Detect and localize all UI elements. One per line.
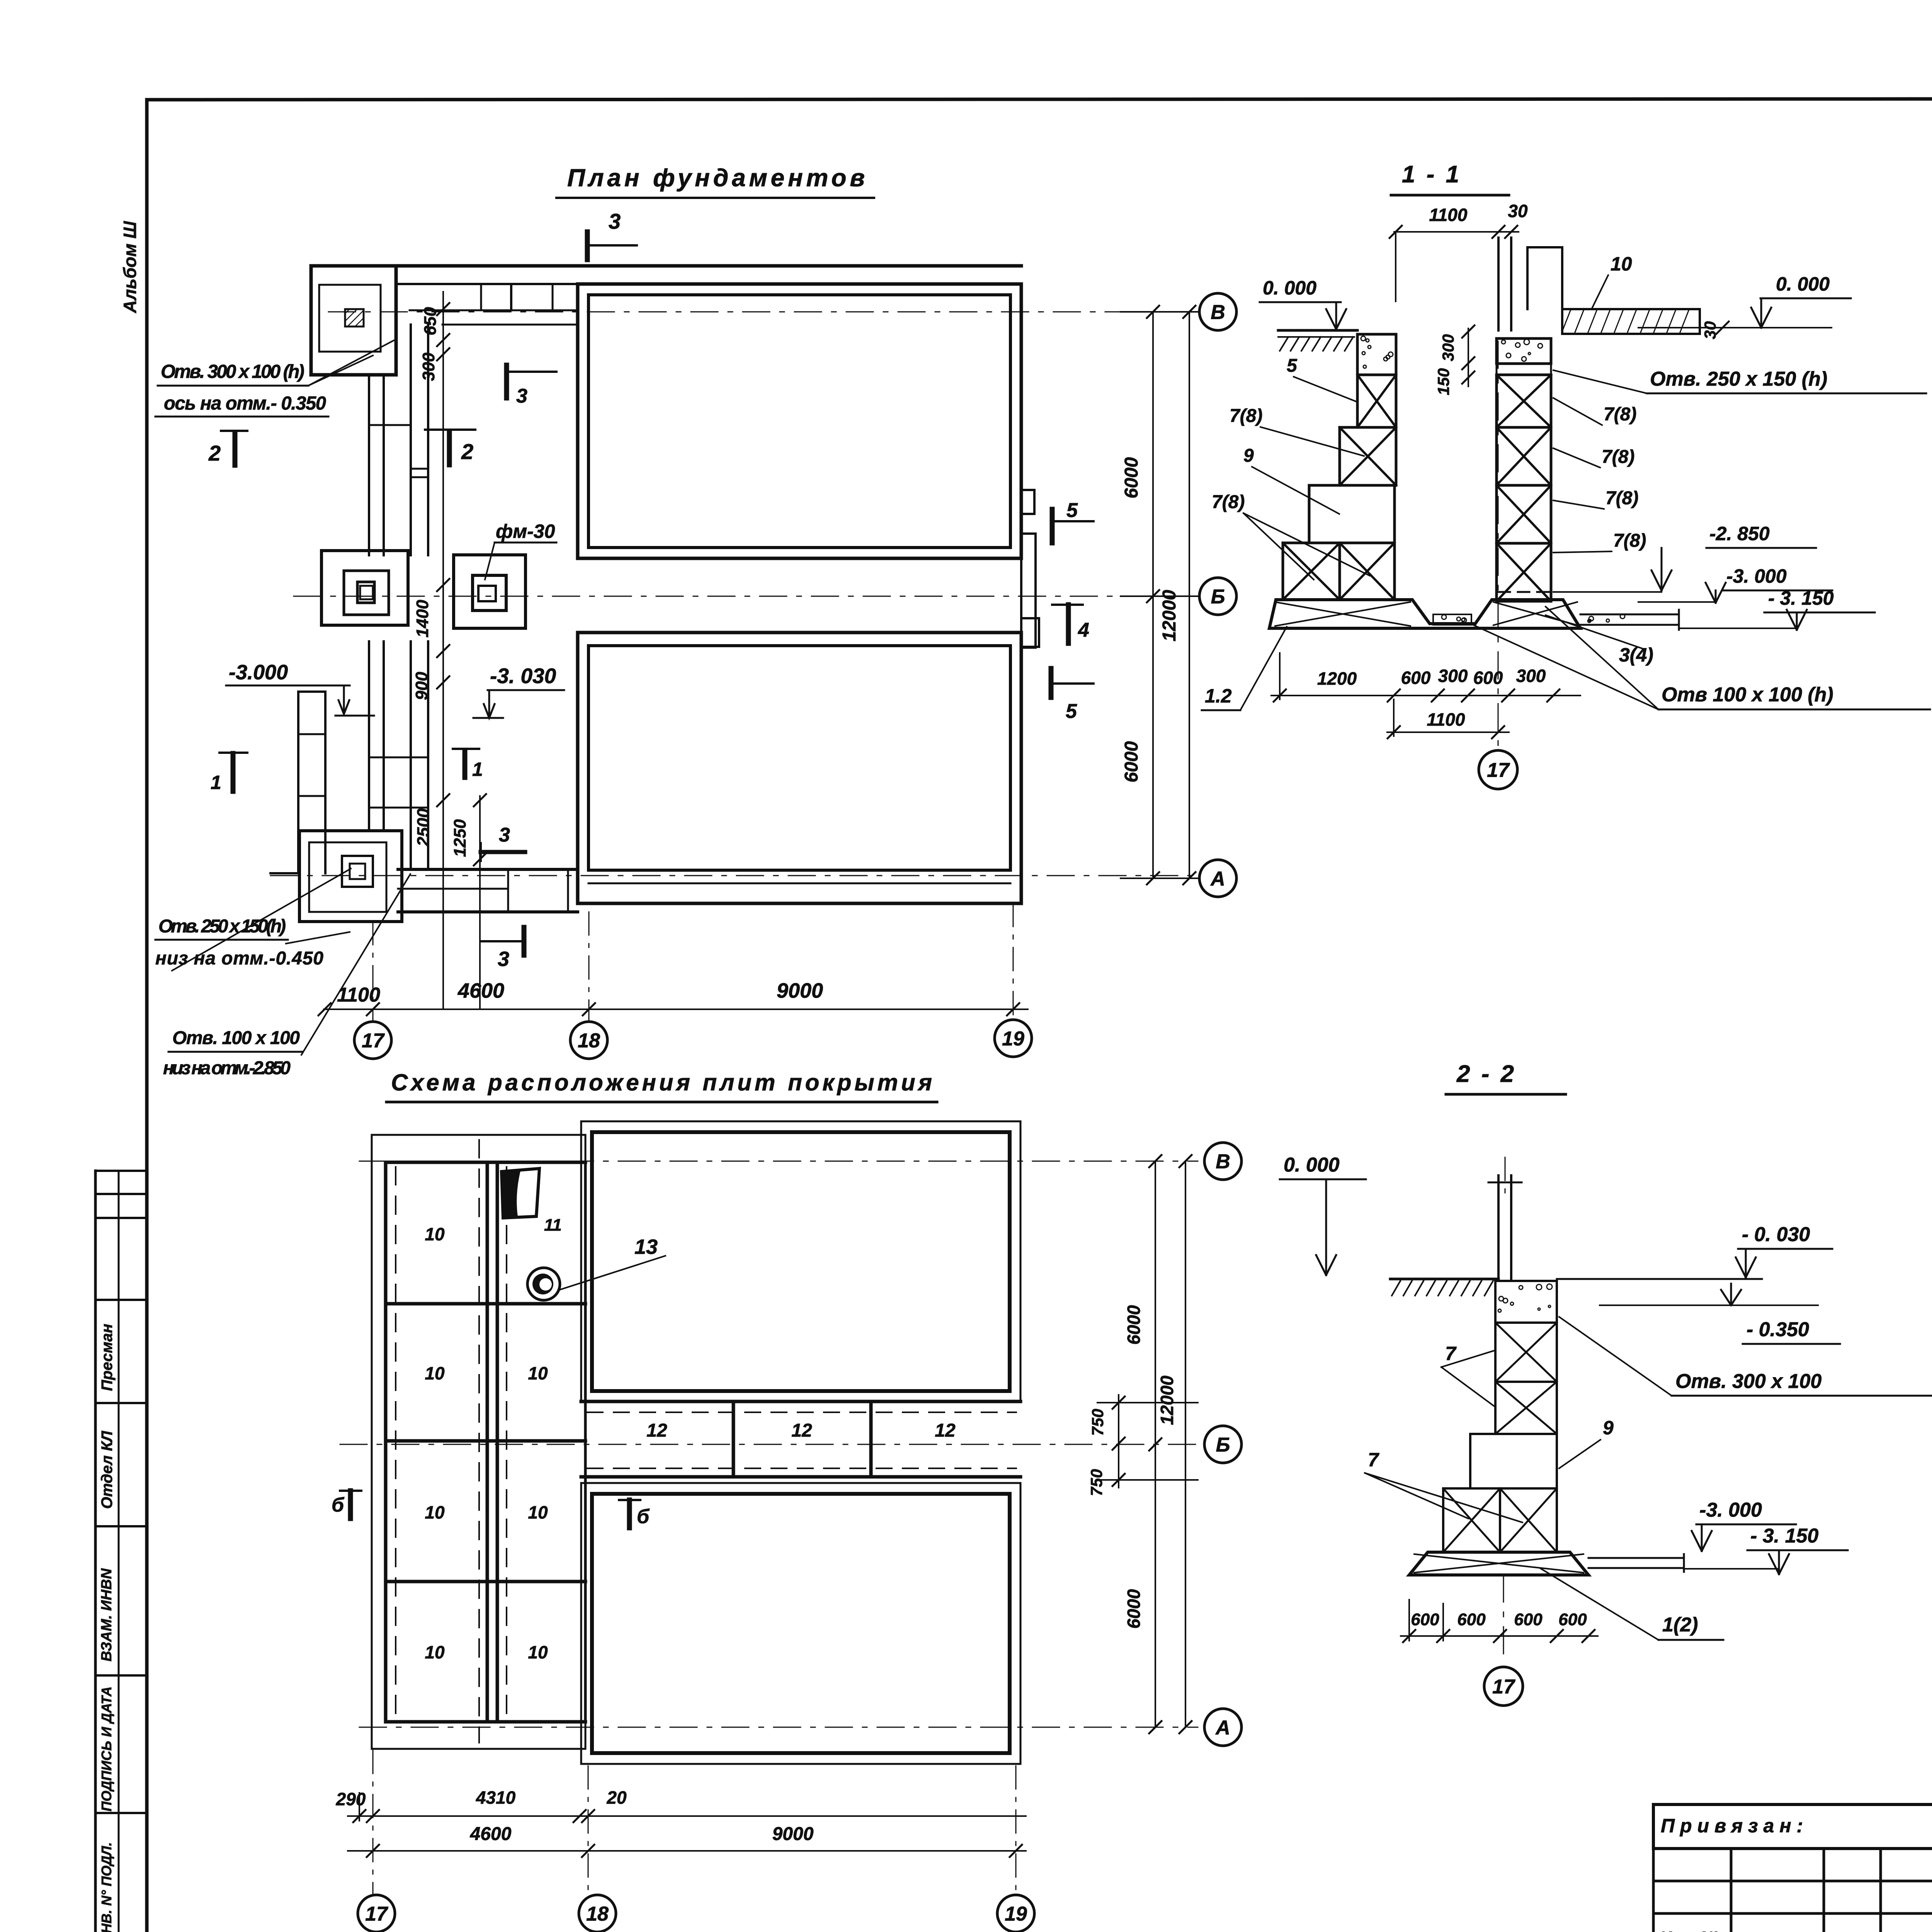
svg-text:300: 300: [1438, 666, 1468, 686]
wall block R2: [1497, 375, 1551, 427]
svg-text:300: 300: [1516, 666, 1546, 686]
svg-text:В: В: [1211, 301, 1225, 324]
svg-text:7(8): 7(8): [1212, 492, 1245, 512]
plain block B4 (9): [1470, 1434, 1557, 1488]
svg-text:-3. 000: -3. 000: [1726, 565, 1787, 587]
pad extension 2-2: [1588, 1557, 1684, 1559]
pit 1 (upper basin) outer: [578, 284, 1021, 558]
axis A corner cluster bottom-left: [299, 831, 402, 922]
svg-text:10: 10: [528, 1642, 548, 1662]
stamp column boxes: [94, 1171, 97, 1932]
svg-text:1250: 1250: [451, 819, 469, 857]
svg-text:600: 600: [1401, 668, 1431, 688]
opening strip R1b: [1497, 364, 1551, 375]
axis 17 section 1-1: [1498, 238, 1499, 746]
column footing фм-30: [454, 555, 526, 628]
svg-text:30: 30: [1508, 201, 1528, 221]
svg-text:12: 12: [646, 1420, 667, 1441]
svg-text:17: 17: [365, 1903, 388, 1925]
svg-text:А: А: [1215, 1717, 1230, 1739]
svg-text:1: 1: [472, 759, 483, 780]
scheme right upper slab outer: [581, 1121, 1020, 1402]
section mark 3 bottom: [522, 927, 527, 955]
svg-text:Инв. N°: Инв. N°: [1660, 1928, 1719, 1932]
svg-text:Отв 100 х 100 (h): Отв 100 х 100 (h): [1662, 684, 1833, 706]
svg-text:7(8): 7(8): [1605, 488, 1638, 509]
axis 17 2-2: [1503, 1575, 1504, 1662]
svg-text:13: 13: [634, 1235, 658, 1259]
axis circle 18 plan: [570, 1022, 607, 1059]
svg-text:Отдел КЛ: Отдел КЛ: [99, 1430, 116, 1509]
section 2-2 bottom dims: [1401, 1635, 1598, 1637]
svg-text:1 - 1: 1 - 1: [1402, 161, 1461, 188]
svg-text:4600: 4600: [470, 1824, 512, 1844]
svg-text:3: 3: [609, 209, 621, 233]
svg-text:0. 000: 0. 000: [1284, 1154, 1340, 1176]
svg-text:600: 600: [1411, 1610, 1439, 1629]
plain block L4 (9): [1309, 485, 1395, 543]
svg-text:А: А: [1210, 868, 1225, 890]
axis circle Б plan: [1199, 578, 1236, 615]
svg-text:ПОДПИСЬ И ДАТА: ПОДПИСЬ И ДАТА: [99, 1686, 114, 1811]
svg-text:9: 9: [1603, 1417, 1614, 1439]
scheme right lower slab inner: [592, 1494, 1010, 1753]
svg-text:600: 600: [1558, 1610, 1587, 1629]
svg-text:7: 7: [1445, 1343, 1457, 1364]
plan top-left corner block: [311, 266, 396, 375]
svg-text:3: 3: [499, 824, 510, 846]
scheme grid rows: [386, 1161, 585, 1164]
wall block L5: [1283, 543, 1340, 600]
svg-text:12000: 12000: [1159, 590, 1180, 641]
svg-text:12000: 12000: [1157, 1376, 1177, 1425]
svg-text:Альбом Ш: Альбом Ш: [120, 221, 140, 313]
svg-text:1400: 1400: [413, 600, 432, 638]
svg-text:1100: 1100: [337, 984, 380, 1006]
scheme left grid outer: [372, 1135, 585, 1749]
ground line left: [1278, 329, 1357, 332]
svg-text:7(8): 7(8): [1613, 531, 1646, 551]
svg-text:ИНВ. N° ПОДЛ.: ИНВ. N° ПОДЛ.: [99, 1842, 114, 1932]
svg-text:0. 000: 0. 000: [1776, 273, 1830, 295]
svg-text:5: 5: [1066, 700, 1077, 723]
svg-text:2: 2: [208, 441, 221, 465]
svg-text:ось на отм.- 0.350: ось на отм.- 0.350: [164, 393, 326, 414]
plan axis line B: [328, 311, 1200, 313]
plan axis line A: [270, 875, 1200, 876]
svg-text:10: 10: [425, 1363, 445, 1383]
svg-text:750: 750: [1087, 1469, 1105, 1496]
svg-text:-3.000: -3.000: [229, 661, 288, 684]
scheme left grid columns: [384, 1162, 388, 1722]
svg-text:фм-30: фм-30: [496, 520, 555, 542]
dashed joints: [395, 1167, 396, 1718]
svg-text:-2. 850: -2. 850: [1709, 523, 1770, 544]
outer west wall strip: [297, 692, 299, 873]
wall block B6: [1500, 1488, 1557, 1552]
svg-text:1200: 1200: [1317, 668, 1357, 689]
axis Б corner cluster left: [321, 551, 408, 625]
axis circle Б scheme: [1204, 1426, 1242, 1463]
svg-text:10: 10: [1611, 253, 1632, 275]
svg-text:Отв. 300 х 100 (h): Отв. 300 х 100 (h): [161, 361, 304, 382]
section mark 4 right: [1066, 605, 1071, 643]
svg-text:Отв. 300 х 100: Отв. 300 х 100: [1675, 1370, 1821, 1393]
svg-text:10: 10: [528, 1363, 548, 1383]
section mark 5 upper: [1050, 509, 1055, 543]
svg-text:3: 3: [498, 947, 509, 971]
svg-text:5: 5: [1287, 355, 1298, 376]
small grid bottom left of title block: [1653, 1880, 1932, 1883]
vertical dim line 6000/6000: [1152, 312, 1154, 878]
svg-text:290: 290: [336, 1789, 366, 1809]
svg-text:Схема расположения плит по: Схема расположения плит покрытия: [391, 1070, 932, 1095]
section mark 1 inner: [463, 751, 468, 777]
section 1-1 top dims: [1394, 231, 1519, 233]
axis circle A scheme: [1204, 1709, 1242, 1746]
foundation pad 2-2: [1409, 1552, 1588, 1575]
svg-text:2 - 2: 2 - 2: [1456, 1061, 1516, 1087]
svg-text:б: б: [637, 1505, 650, 1528]
wall above ground 2-2: [1497, 1175, 1500, 1281]
svg-text:650: 650: [421, 307, 440, 335]
pit 2 inner: [588, 646, 1010, 870]
axis circle 19 plan: [995, 1020, 1032, 1057]
svg-text:5: 5: [1066, 499, 1078, 522]
svg-text:4310: 4310: [476, 1787, 516, 1808]
svg-text:низ на отм.-2.850: низ на отм.-2.850: [163, 1058, 291, 1078]
svg-text:6000: 6000: [1121, 457, 1142, 498]
scheme right dims 750: [1118, 1395, 1119, 1488]
svg-text:750: 750: [1088, 1409, 1107, 1436]
privyazan box: [1653, 1804, 1932, 1849]
level -0.350: [1600, 1304, 1818, 1306]
svg-text:Привязан:: Привязан:: [1661, 1815, 1808, 1837]
svg-text:17: 17: [1487, 759, 1510, 782]
svg-text:ВЗАМ. ИНВN: ВЗАМ. ИНВN: [99, 1568, 115, 1662]
svg-text:300: 300: [419, 352, 438, 381]
svg-text:600: 600: [1457, 1610, 1486, 1629]
svg-text:Отв. 250 х 150(h): Отв. 250 х 150(h): [158, 916, 286, 937]
svg-text:1(2): 1(2): [1662, 1614, 1698, 1636]
svg-text:1.2: 1.2: [1205, 685, 1232, 707]
svg-text:7: 7: [1368, 1449, 1379, 1471]
axis circle B scheme: [1204, 1143, 1242, 1180]
svg-text:4: 4: [1078, 619, 1089, 641]
wall block B3: [1495, 1382, 1557, 1434]
svg-text:7(8): 7(8): [1230, 406, 1262, 426]
floor slab 10 right: [1562, 309, 1700, 334]
section mark 3 mid: [504, 365, 509, 398]
section 1-1 bottom dims: [1271, 695, 1580, 696]
svg-text:300: 300: [1439, 334, 1457, 361]
svg-text:2500: 2500: [414, 808, 433, 847]
svg-text:30: 30: [1701, 321, 1719, 339]
axis circle A plan: [1199, 860, 1236, 897]
svg-text:0. 000: 0. 000: [1263, 277, 1316, 299]
vertical dim line 12000: [1189, 312, 1190, 878]
svg-text:1100: 1100: [1429, 205, 1468, 225]
svg-text:10: 10: [425, 1642, 445, 1662]
scheme bottom dims: [348, 1815, 1026, 1817]
wall block R4: [1497, 485, 1551, 543]
svg-text:19: 19: [1005, 1903, 1027, 1925]
axis circle 17 plan: [354, 1022, 391, 1059]
svg-text:-3. 000: -3. 000: [1699, 1499, 1762, 1521]
svg-text:9: 9: [1243, 446, 1254, 466]
svg-text:Отв. 250 х 150 (h): Отв. 250 х 150 (h): [1650, 368, 1827, 390]
scheme middle band: [581, 1400, 1020, 1403]
section mark 2 inner: [447, 431, 452, 465]
plan inner dim chain: [442, 292, 444, 1009]
svg-text:600: 600: [1514, 1610, 1543, 1629]
axis circle 17 scheme: [358, 1895, 395, 1932]
svg-text:6000: 6000: [1124, 1589, 1144, 1629]
wall above ground: [1497, 238, 1500, 330]
svg-text:- 0.350: - 0.350: [1747, 1318, 1809, 1341]
svg-text:-3. 030: -3. 030: [490, 664, 556, 688]
plan left wall verticals: [368, 375, 370, 555]
svg-text:В: В: [1216, 1151, 1230, 1173]
plan top wall band: [396, 283, 578, 285]
svg-text:Б: Б: [1216, 1434, 1230, 1456]
svg-text:18: 18: [578, 1030, 600, 1052]
svg-text:12: 12: [791, 1420, 812, 1441]
wall block B5: [1443, 1488, 1500, 1552]
scheme axis lines: [359, 1161, 1198, 1162]
svg-text:9000: 9000: [777, 979, 823, 1002]
scheme right upper slab inner: [592, 1132, 1010, 1391]
svg-text:10: 10: [425, 1502, 445, 1522]
svg-text:17: 17: [362, 1030, 385, 1052]
svg-text:Пресман: Пресман: [99, 1324, 116, 1391]
svg-text:150: 150: [1434, 368, 1452, 395]
axis circle 19 scheme: [997, 1895, 1034, 1932]
sheet frame border: [147, 99, 1932, 100]
svg-text:- 0. 030: - 0. 030: [1742, 1223, 1810, 1246]
ground line 2-2: [1390, 1278, 1498, 1281]
svg-text:б: б: [332, 1494, 345, 1516]
scheme right lower slab outer: [581, 1483, 1020, 1764]
svg-text:10: 10: [528, 1502, 548, 1522]
svg-text:6000: 6000: [1121, 741, 1142, 782]
wall block B2: [1495, 1323, 1557, 1382]
scheme dim 6000/12000: [1155, 1161, 1156, 1727]
sand block L1: [1357, 334, 1396, 375]
section mark 6 inner: [619, 1499, 640, 1501]
svg-text:1: 1: [211, 772, 221, 793]
pit right side stubs: [1021, 490, 1034, 514]
svg-text:7(8): 7(8): [1602, 447, 1634, 467]
wall block R3: [1497, 427, 1551, 485]
pit 1 inner: [588, 295, 1010, 548]
svg-text:12: 12: [935, 1420, 956, 1441]
svg-text:7(8): 7(8): [1604, 404, 1636, 425]
svg-text:- 3. 150: - 3. 150: [1768, 587, 1834, 609]
svg-text:11: 11: [544, 1216, 562, 1235]
wall block L6: [1340, 543, 1395, 600]
svg-text:20: 20: [606, 1787, 627, 1808]
axis circle B plan: [1199, 293, 1236, 330]
plan bottom wall band: [398, 868, 578, 871]
foundation pad section 1-1: [1269, 600, 1580, 628]
plan top wall outer edge: [311, 264, 1021, 268]
drain ring 13: [527, 1268, 560, 1300]
sand block R1: [1497, 338, 1551, 364]
svg-text:3: 3: [516, 385, 527, 407]
pit 2 (lower basin) outer: [578, 633, 1021, 903]
svg-text:План фундаментов: План фундаментов: [567, 164, 865, 192]
svg-text:19: 19: [1002, 1028, 1024, 1050]
svg-text:10: 10: [425, 1224, 445, 1244]
left wall joints: [411, 468, 428, 470]
svg-text:900: 900: [412, 672, 431, 700]
svg-text:Б: Б: [1211, 586, 1225, 608]
svg-text:6000: 6000: [1124, 1305, 1144, 1345]
svg-text:18: 18: [586, 1903, 609, 1925]
svg-text:Отв. 100 х 100: Отв. 100 х 100: [172, 1028, 300, 1048]
wall joints top band: [480, 284, 482, 310]
wall block L3: [1340, 427, 1396, 485]
mini dims 300 150: [1468, 328, 1469, 386]
pad right extension: [1580, 614, 1679, 616]
svg-text:3(4): 3(4): [1619, 644, 1653, 666]
section mark 5 lower: [1049, 668, 1054, 697]
wall block R5: [1497, 543, 1551, 601]
axis stubs to circles: [372, 922, 374, 1020]
wall block L2: [1357, 375, 1396, 427]
svg-text:2: 2: [461, 439, 473, 464]
svg-text:17: 17: [1492, 1676, 1515, 1698]
axis circle 18 scheme: [579, 1895, 616, 1932]
slab 11 black wedge: [502, 1168, 539, 1218]
sand block B1: [1495, 1281, 1557, 1323]
svg-text:9000: 9000: [772, 1824, 814, 1844]
plan bottom dimension line: [324, 1009, 1028, 1010]
svg-text:4600: 4600: [457, 979, 504, 1002]
svg-text:1100: 1100: [1427, 709, 1465, 730]
plan axis line Б: [294, 596, 1200, 597]
svg-text:- 3. 150: - 3. 150: [1750, 1525, 1818, 1547]
